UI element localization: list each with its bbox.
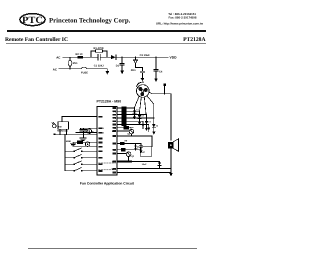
svg-text:Fax: 886-2-29174598: Fax: 886-2-29174598	[169, 16, 197, 20]
wire AC bottom line	[59, 68, 107, 70]
IC left pin name labels	[98, 115, 104, 172]
svg-text:455K: 455K	[66, 140, 72, 143]
buzzer BZ1	[168, 94, 178, 169]
zener ZD1	[131, 57, 143, 72]
svg-text:R1 470K: R1 470K	[94, 47, 104, 50]
svg-text:FUSE: FUSE	[81, 72, 88, 75]
misc component value labels (right network)	[125, 109, 159, 159]
AC terminal square to fan line	[163, 84, 166, 95]
wire lower rail 2	[117, 172, 171, 174]
resistor R1 (dropper bleeder, top branch of loop)	[91, 47, 107, 57]
ground (osc)	[80, 138, 86, 141]
wire bottom-line end arrow	[105, 69, 109, 75]
module box (driver)	[140, 147, 151, 157]
capacitor C1 (X-cap on main line)	[91, 54, 107, 67]
crystal X1	[81, 128, 94, 133]
svg-text:RM: RM	[58, 125, 61, 128]
wire AC top line	[63, 56, 91, 58]
switch K1	[64, 148, 97, 152]
capacitor C5 (osc)	[80, 128, 87, 138]
svg-text:PT2128A: PT2128A	[183, 37, 205, 43]
svg-text:Remote Fan Controller IC: Remote Fan Controller IC	[5, 37, 68, 43]
transistor Q2	[117, 152, 131, 162]
wire VDD rail	[107, 56, 168, 58]
thin title rule	[6, 42, 206, 45]
thick header rule	[7, 30, 206, 32]
capacitor C4 + ground arrow	[154, 57, 163, 82]
wire common line under remocon	[55, 133, 97, 135]
svg-text:C4: C4	[159, 70, 163, 73]
footer rule	[28, 248, 197, 249]
right side row 6: resistor R8 + diode	[117, 123, 150, 132]
wire fan lead 3	[144, 97, 146, 118]
ground (resonator)	[66, 140, 76, 146]
wire fan lead 1	[135, 96, 140, 108]
svg-text:VSS: VSS	[98, 137, 103, 140]
row BZ: resistor R9 + diode D2 + cap C6	[117, 142, 143, 150]
svg-text:URL: http://www.princeton.com.: URL: http://www.princeton.com.tw	[156, 21, 204, 25]
svg-text:LED: LED	[112, 130, 117, 133]
wire fan right lead	[149, 92, 171, 94]
capacitor C2 + ground arrow	[120, 57, 124, 75]
photodiode of remocon	[52, 123, 56, 128]
svg-text:C3 10uF: C3 10uF	[140, 54, 151, 57]
node AC line (top) label	[56, 55, 61, 59]
wire fan lead 2	[140, 97, 142, 112]
right side row 5: resistor R7 + diode	[117, 120, 145, 128]
svg-text:PTC: PTC	[22, 15, 43, 26]
diode D3 to lower rail	[158, 162, 161, 170]
capacitor C3 + ground arrow	[140, 54, 151, 81]
IR receiver module (REMOCON)	[57, 122, 68, 135]
svg-text:VDD: VDD	[112, 168, 117, 171]
PTC logo	[20, 14, 45, 26]
svg-text:ZD1: ZD1	[131, 69, 136, 72]
svg-text:OSC1: OSC1	[98, 127, 104, 130]
oscillator wires to IC	[76, 128, 97, 132]
IC U1 PT2128A-M90	[97, 100, 122, 175]
contact info block	[156, 12, 204, 25]
right side row 4: resistor R6 + triac T4	[117, 104, 156, 135]
key matrix bus	[64, 134, 66, 171]
junction on bottom line	[69, 68, 70, 69]
IC right pin name labels	[112, 107, 117, 171]
resistor R11	[78, 141, 83, 144]
fan motor M1	[137, 82, 150, 97]
svg-text:VDD: VDD	[170, 56, 178, 60]
svg-text:ZC: ZC	[142, 151, 145, 154]
right side row 7: resistor + node	[117, 127, 133, 130]
fuse F1	[81, 67, 88, 74]
svg-text:AD: AD	[113, 149, 116, 152]
lower resonator wires	[73, 142, 97, 146]
wire remote input to IC	[62, 116, 97, 121]
right side row 1: resistor R3 + triac T1	[117, 107, 136, 120]
transistor Q1	[117, 129, 134, 136]
svg-text:Fan Controller Application Cir: Fan Controller Application Circuit	[80, 182, 135, 186]
IC pin-name ink blobs	[98, 107, 116, 173]
svg-text:VSS: VSS	[112, 160, 117, 163]
svg-text:Princeton Technology Corp.: Princeton Technology Corp.	[49, 17, 131, 24]
switch K3	[64, 161, 97, 165]
switch K4	[65, 168, 97, 172]
resonator X2	[85, 142, 89, 146]
resistor R0 (series, on top line)	[76, 53, 83, 58]
varistor RV1	[68, 57, 78, 69]
wire ZC row	[117, 135, 153, 146]
svg-text:RIN: RIN	[98, 115, 102, 118]
svg-text:D1: D1	[116, 65, 120, 68]
svg-text:10uF: 10uF	[142, 163, 147, 166]
wire lower rail 1	[117, 168, 171, 170]
ground arrow bottom right	[169, 169, 173, 177]
svg-text:R2 10: R2 10	[76, 53, 83, 56]
svg-text:RV1: RV1	[73, 62, 79, 65]
wire fan lead 4	[147, 96, 154, 104]
svg-text:C1 224J: C1 224J	[94, 65, 104, 68]
diode D1	[111, 55, 120, 68]
svg-text:PT2128A - M90: PT2128A - M90	[97, 100, 122, 104]
svg-text:OSC2: OSC2	[98, 131, 104, 134]
right side row 3: resistor R5 + triac T3	[117, 113, 148, 131]
wire VSS row with label band	[117, 161, 160, 166]
switch K2	[64, 155, 97, 159]
IC internal dashed NC lines	[99, 163, 116, 170]
node AC line (bottom) label	[53, 67, 58, 71]
right side row 2: resistor R4 + triac T2	[117, 110, 141, 125]
row: resistor R10	[117, 149, 143, 154]
